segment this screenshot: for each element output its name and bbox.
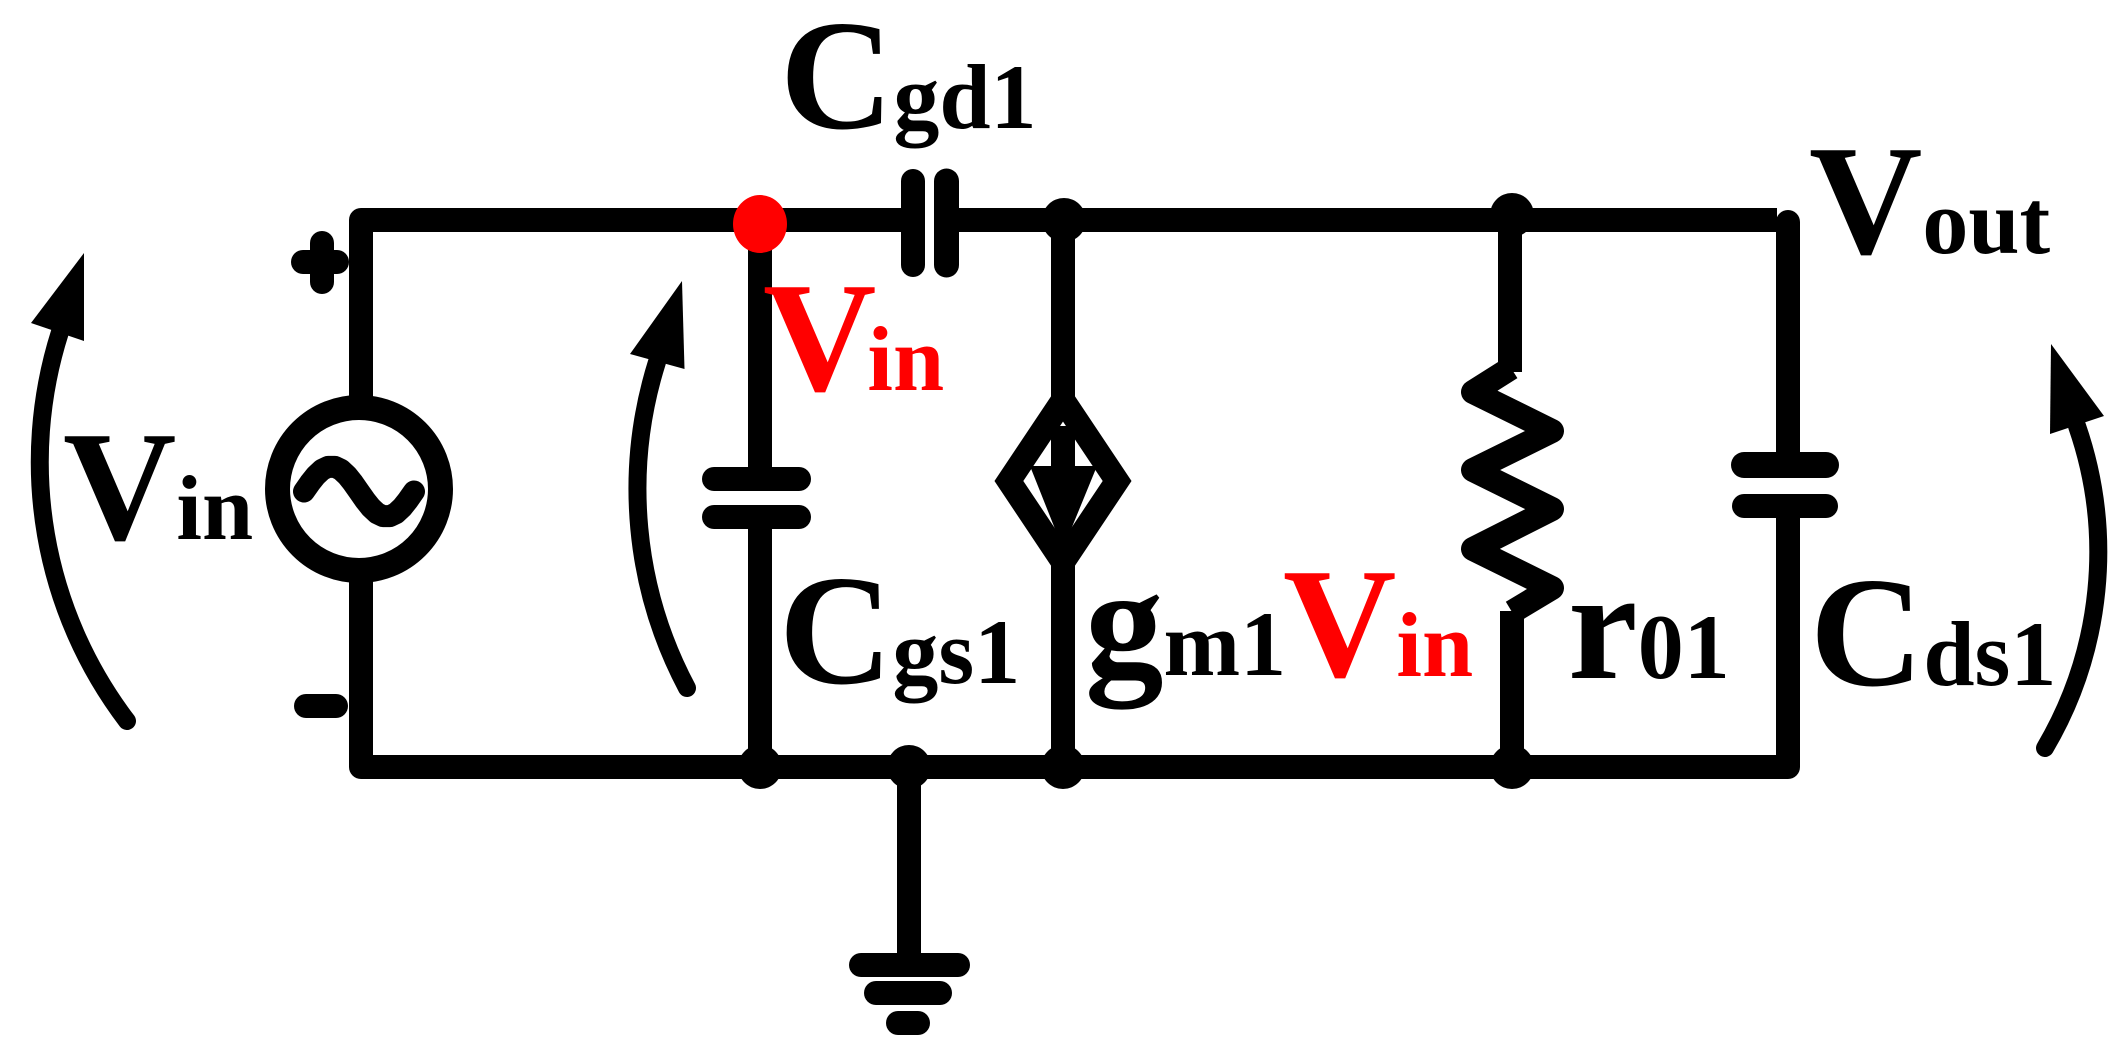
minus sign of source bbox=[306, 694, 336, 718]
curved arrow: right (Vout) arc bbox=[2045, 426, 2098, 748]
wire: Cgs1 bottom plate to bottom rail bbox=[748, 517, 772, 767]
voltage source Vin: sine wave bbox=[304, 467, 414, 516]
node Vin: red junction dot bbox=[733, 195, 787, 253]
capacitor Cgd1: left plate bbox=[901, 181, 925, 265]
junction dot: Cgs1 at bottom rail bbox=[738, 745, 782, 789]
wire: right branch down to Cds1 top plate bbox=[1776, 222, 1800, 465]
svg-text:Vin: Vin bbox=[63, 399, 253, 573]
curved arrow: right arrowhead bbox=[2050, 344, 2104, 434]
curved arrow: middle (Vin across Cgs1) arc bbox=[637, 362, 687, 688]
resistor r01: zigzag bbox=[1473, 368, 1552, 612]
capacitor Cds1: bottom plate bbox=[1744, 494, 1826, 518]
wire: bottom rail and right-bottom corner up to Cds1 bbox=[760, 506, 1788, 767]
svg-text:Cgs1: Cgs1 bbox=[779, 543, 1020, 717]
capacitor Cgs1: top plate bbox=[714, 467, 799, 491]
wire: resistor r01 bottom to bottom rail bbox=[1500, 611, 1524, 767]
junction dot: bottom rail below current source bbox=[1041, 745, 1085, 789]
svg-text:Cgd1: Cgd1 bbox=[780, 0, 1037, 162]
wire: current source diamond bottom to bottom rail bbox=[1051, 557, 1075, 767]
dependent current source: arrow head bbox=[1030, 466, 1097, 549]
wire: top rail from Cgd1 right plate to right end bbox=[955, 208, 1777, 232]
junction dot: top rail above resistor r01 bbox=[1490, 193, 1534, 237]
wire: top rail from node Vin to Cgd1 left plate bbox=[760, 208, 905, 232]
wire: top rail down to current source diamond bbox=[1051, 220, 1075, 405]
wire: source bottom to bottom-left corner to Cgs1 bottom node bbox=[361, 578, 760, 767]
junction dot: top rail above current source bbox=[1042, 198, 1086, 242]
ground: bar 3 bbox=[898, 1011, 918, 1035]
wire: input loop (source top to top-left corner to node Vin) bbox=[361, 220, 760, 400]
curved arrow: left (Vin polarity) arc bbox=[40, 332, 127, 721]
curved arrow: left arrowhead bbox=[31, 253, 84, 341]
capacitor Cgd1: right plate bbox=[934, 181, 959, 265]
svg-text:gm1: gm1 bbox=[1085, 535, 1286, 710]
capacitor Cgs1: bottom plate bbox=[714, 505, 799, 529]
svg-text:Vout: Vout bbox=[1809, 113, 2051, 287]
svg-text:r01: r01 bbox=[1568, 538, 1730, 712]
plus sign of source bbox=[303, 243, 337, 282]
voltage source Vin: circle bbox=[278, 408, 441, 571]
capacitor Cds1: top plate bbox=[1744, 452, 1826, 478]
svg-text:Cds1: Cds1 bbox=[1810, 545, 2056, 719]
wire: node Vin down to Cgs1 top plate bbox=[748, 222, 772, 479]
curved arrow: middle arrowhead bbox=[630, 281, 685, 369]
wire: top rail down to resistor r01 bbox=[1498, 220, 1522, 372]
dependent current source: arrow shaft bbox=[1051, 426, 1075, 470]
dependent current source gm1Vin: diamond bbox=[1009, 400, 1117, 562]
ground: bar 2 bbox=[876, 981, 940, 1005]
junction dot: bottom rail below resistor r01 bbox=[1490, 745, 1534, 789]
svg-text:Vin: Vin bbox=[1283, 536, 1473, 710]
ground: stem bbox=[897, 767, 921, 960]
ground: bar 1 bbox=[861, 953, 958, 977]
ground: junction dot on bottom rail bbox=[887, 745, 931, 789]
